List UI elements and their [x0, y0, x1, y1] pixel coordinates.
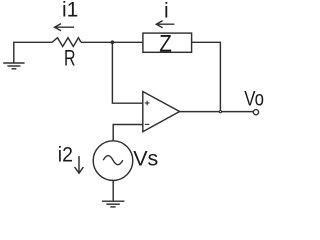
wire op-amp output to Vo terminal — [180, 111, 253, 113]
current arrow i1 — [55, 24, 75, 31]
svg-text:R: R — [64, 46, 76, 71]
op-amp U1 — [143, 92, 180, 132]
source Vs — [93, 141, 133, 181]
svg-text:i: i — [164, 0, 169, 22]
current arrow i2 — [75, 156, 84, 173]
wire op-amp - input to source Vs — [113, 125, 143, 141]
ground (bottom) — [102, 201, 125, 207]
wire node A to op-amp + input — [112, 42, 142, 103]
impedance Z — [143, 33, 192, 52]
op-amp + pin mark — [145, 101, 150, 106]
svg-text:Z: Z — [159, 30, 172, 57]
junction node B — [219, 111, 221, 113]
svg-text:i2: i2 — [58, 144, 73, 167]
wire Vs to ground (bottom) — [112, 180, 114, 201]
junction node A — [111, 40, 115, 44]
svg-text:i1: i1 — [62, 0, 78, 22]
wire Z to output node B — [192, 42, 221, 111]
svg-text:Vo: Vo — [244, 88, 264, 111]
resistor R — [52, 38, 81, 47]
terminal Vo — [253, 110, 258, 115]
wire ground to resistor — [14, 42, 53, 62]
svg-text:Vs: Vs — [133, 147, 158, 171]
wire resistor to node A — [81, 41, 143, 43]
ground (left) — [3, 63, 24, 69]
op-amp - pin mark — [145, 123, 149, 125]
current arrow i — [156, 21, 174, 28]
